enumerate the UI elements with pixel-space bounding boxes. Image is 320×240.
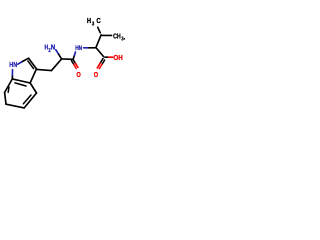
svg-text:3: 3 <box>92 22 94 28</box>
wire bond CH-CH3 <box>102 34 111 36</box>
wire double bond COOH C=O main black part <box>100 59 103 64</box>
svg-text:C: C <box>96 16 100 25</box>
svg-text:HN: HN <box>75 45 82 52</box>
wire bond C7a-C7 <box>5 79 13 93</box>
wire bond alphaCval-carboxylC <box>97 48 104 56</box>
dot artifact right of CH3 subscript <box>123 38 125 40</box>
wire bond carboxylC-OH red part <box>109 56 113 58</box>
wire bond alphaCval-CH isopropyl <box>96 35 101 48</box>
wire bond C3-C3a <box>30 69 36 83</box>
svg-text:3: 3 <box>121 37 123 43</box>
wire double bond C=O trp main black part <box>73 60 76 64</box>
wire bond C3a-C4 <box>30 83 36 93</box>
svg-text:O: O <box>94 70 99 79</box>
svg-text:N: N <box>51 43 56 52</box>
wire double bond COOH C=O main red part <box>97 63 100 68</box>
wire bond C6-C5 <box>6 104 24 108</box>
wire bond C3-CH2 <box>37 69 52 70</box>
wire bond N1-C7a (blue half) <box>11 70 13 77</box>
wire fusion bond C7a-C3a <box>12 79 30 83</box>
wire bond alphaC-carbonyl trp <box>62 58 73 60</box>
wire amide bond C-N (black half) <box>73 55 74 58</box>
wire bond N1-C2 indole (blue half) <box>18 61 23 64</box>
svg-text:HN: HN <box>9 60 17 69</box>
wire double bond C=O trp inner black part <box>71 61 73 65</box>
wire double bond COOH C=O inner red part <box>99 64 102 68</box>
wire bond N1-C2 indole (black half) <box>23 58 29 61</box>
wire bond N1-C7a (black half) <box>11 76 13 79</box>
wire bond carboxylC-OH black part <box>105 56 109 58</box>
wire double bond C2=C3 inner <box>28 61 34 69</box>
wire double bond C=O trp main red part <box>76 63 78 67</box>
wire bond Namide-alphaC val (blue half) <box>84 47 89 49</box>
wire fusion bond inner line <box>15 83 26 86</box>
svg-text:CH: CH <box>113 31 121 40</box>
svg-text:O: O <box>76 70 81 79</box>
wire bond Namide-alphaC val (black half) <box>89 47 96 49</box>
wire double bond C=O trp inner red part <box>74 65 76 69</box>
wire bond CH-H3C <box>98 27 101 33</box>
wire bond CH2-alphaC trp <box>51 59 61 71</box>
wire bond C7a-C7 inner line <box>7 87 10 92</box>
wire double bond C5=C4 main <box>24 93 36 108</box>
wire amide bond C-N (blue half) <box>74 52 75 55</box>
wire double bond C5=C4 inner <box>23 95 31 104</box>
wire bond H2N-alphaC (blue half) <box>56 50 59 54</box>
svg-text:H: H <box>87 16 91 25</box>
wire bond H2N-alphaC (black half) <box>59 54 62 59</box>
wire bond C7-C6 <box>5 93 6 105</box>
wire double bond COOH C=O inner black part <box>102 60 105 64</box>
svg-text:OH: OH <box>113 53 122 62</box>
wire double bond C2=C3 main <box>29 58 37 69</box>
